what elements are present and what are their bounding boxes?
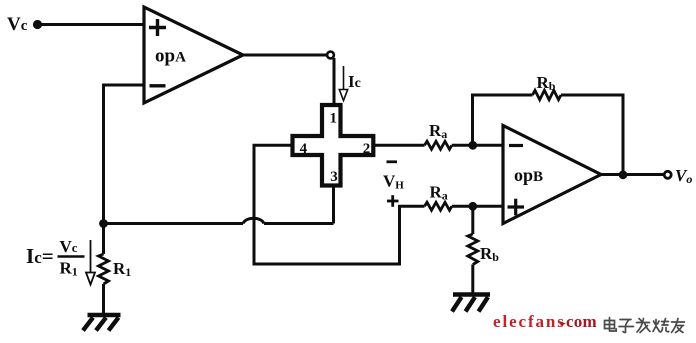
svg-text:2: 2 xyxy=(363,141,371,157)
svg-text:com: com xyxy=(566,312,597,331)
svg-text:1: 1 xyxy=(330,111,338,127)
svg-text:elecfans: elecfans xyxy=(493,312,566,331)
svg-text:4: 4 xyxy=(300,141,308,157)
svg-text:opA: opA xyxy=(155,46,186,67)
svg-text:Vc: Vc xyxy=(60,237,78,256)
svg-text:Vc: Vc xyxy=(7,14,28,35)
svg-text:3: 3 xyxy=(330,169,338,185)
svg-text:Ic=: Ic= xyxy=(26,244,54,268)
